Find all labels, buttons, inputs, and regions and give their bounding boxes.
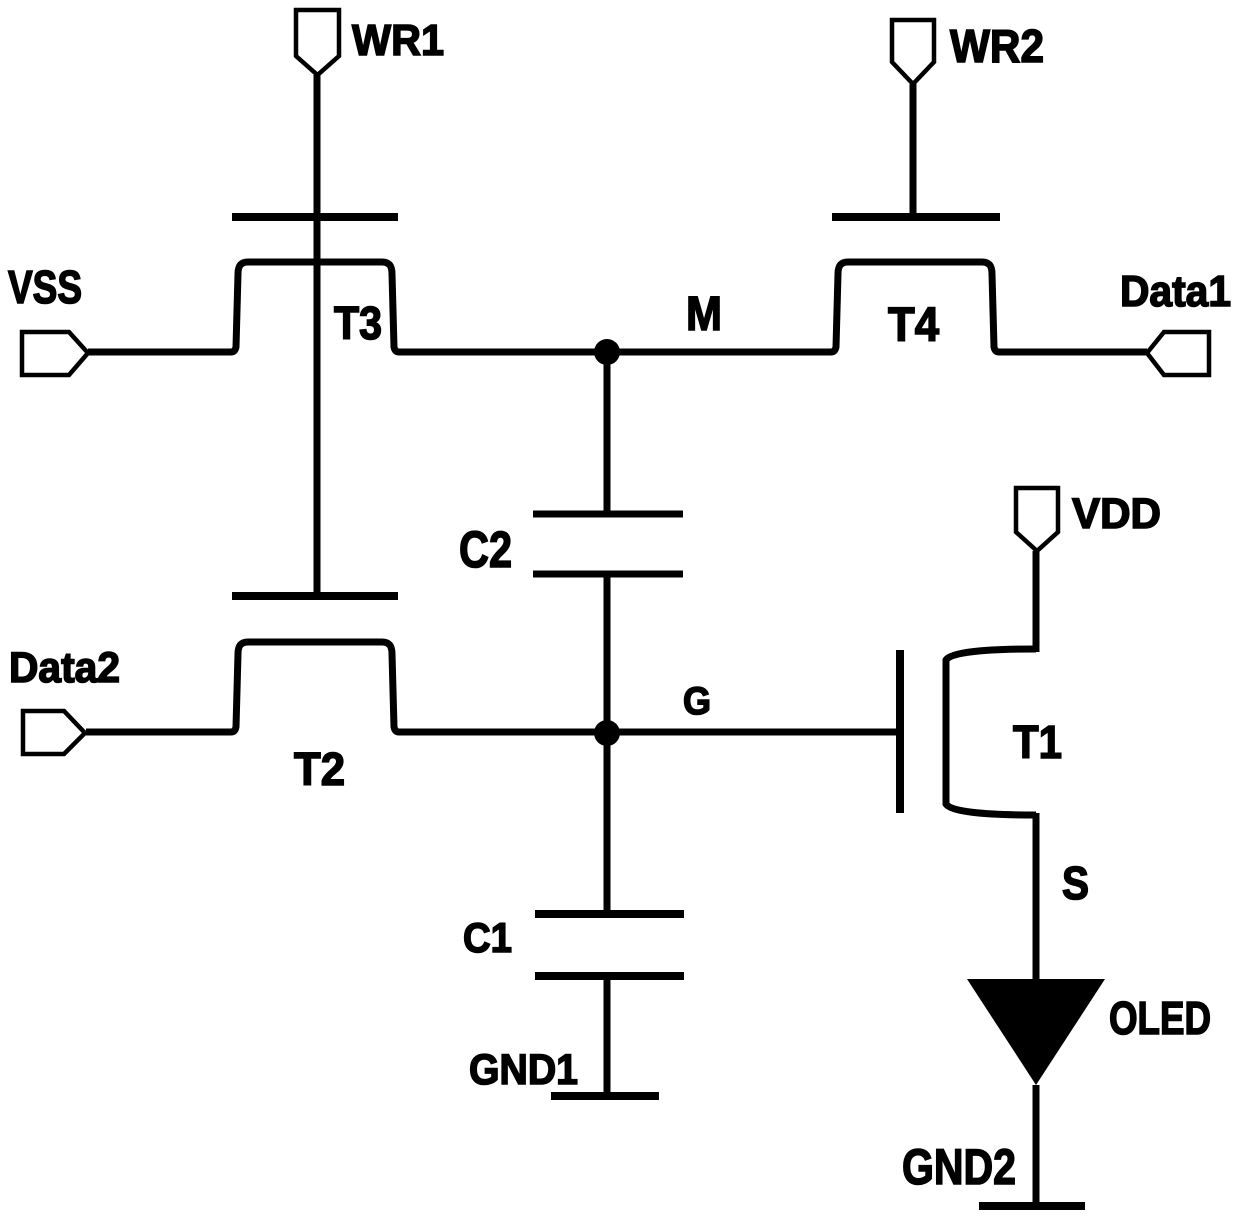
svg-text:T4: T4 — [888, 299, 939, 352]
svg-text:T1: T1 — [1013, 716, 1062, 768]
svg-text:Data1: Data1 — [1120, 267, 1231, 316]
svg-text:S: S — [1062, 857, 1089, 909]
svg-text:G: G — [683, 680, 711, 723]
svg-text:GND1: GND1 — [469, 1046, 578, 1094]
svg-text:M: M — [686, 288, 722, 341]
svg-text:C1: C1 — [463, 914, 512, 961]
svg-text:T2: T2 — [294, 743, 345, 795]
svg-text:WR1: WR1 — [352, 16, 444, 65]
svg-text:VSS: VSS — [8, 261, 82, 313]
svg-text:T3: T3 — [334, 297, 382, 349]
svg-text:VDD: VDD — [1072, 490, 1161, 538]
svg-text:WR2: WR2 — [950, 20, 1044, 72]
svg-text:OLED: OLED — [1109, 992, 1211, 1044]
svg-text:GND2: GND2 — [902, 1139, 1016, 1195]
svg-text:Data2: Data2 — [9, 644, 120, 692]
svg-text:C2: C2 — [459, 521, 512, 578]
